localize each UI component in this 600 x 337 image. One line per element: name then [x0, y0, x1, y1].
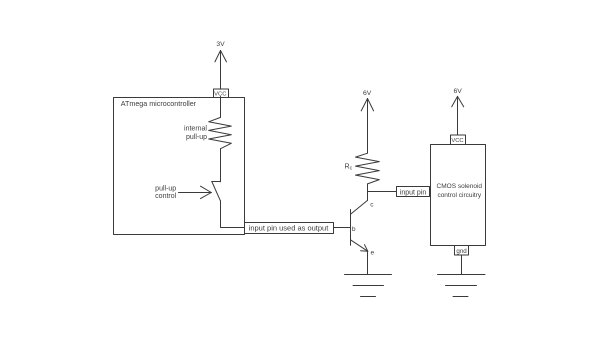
wire VCC pin to internal pull-up resistor — [220, 97, 222, 118]
svg-text:3V: 3V — [216, 41, 225, 48]
resistor internal pull-up — [209, 117, 232, 148]
svg-text:input pin: input pin — [400, 189, 427, 196]
wire node to input pin box — [368, 191, 397, 193]
arrow pull-up control pointer — [179, 186, 212, 198]
wire emitter to ground — [367, 252, 369, 275]
svg-text:control circuitry: control circuitry — [437, 192, 481, 199]
svg-text:control: control — [155, 193, 176, 200]
pin box VCC (ATmega) — [214, 89, 229, 98]
svg-text:VCC: VCC — [451, 138, 463, 144]
node box: input pin used as output — [245, 223, 334, 234]
svg-text:internal: internal — [184, 125, 207, 132]
svg-text:gnd: gnd — [456, 248, 467, 255]
supply arrow 6V (Rc) — [361, 99, 373, 154]
wire output pin to base — [334, 227, 351, 229]
pin box vcc (CMOS) — [451, 135, 466, 145]
svg-text:b: b — [352, 226, 356, 233]
svg-text:pull-up: pull-up — [155, 185, 176, 192]
label: pull-up control — [155, 185, 176, 200]
svg-text:ATmega microcontroller: ATmega microcontroller — [121, 100, 197, 108]
wire collector up to Rc / input pin node — [367, 184, 369, 201]
wire switch to output pin — [221, 201, 245, 228]
svg-text:6V: 6V — [363, 90, 372, 97]
ground (CMOS) — [438, 275, 486, 297]
CMOS solenoid control circuitry box U2 — [431, 145, 486, 246]
svg-text:input pin used as output: input pin used as output — [249, 224, 330, 233]
svg-text:Rc: Rc — [345, 164, 353, 172]
svg-text:e: e — [371, 250, 375, 257]
resistor Rc — [356, 153, 380, 184]
label: CMOS solenoid control circuitry — [437, 183, 483, 199]
svg-text:6V: 6V — [454, 88, 463, 95]
switch SW1 (pull-up control) — [212, 182, 221, 201]
pin box gnd (CMOS) — [455, 246, 469, 256]
svg-text:pull-up: pull-up — [186, 134, 207, 141]
ATmega microcontroller box U1 — [114, 98, 245, 235]
supply arrow 3V — [215, 51, 227, 90]
wire resistor to switch — [220, 149, 222, 182]
svg-text:CMOS solenoid: CMOS solenoid — [437, 183, 483, 190]
label: internal pull-up — [184, 125, 207, 141]
node box: input pin — [397, 187, 430, 197]
transistor Q1 (NPN) — [351, 200, 368, 251]
supply arrow 6V (CMOS) — [452, 96, 464, 134]
wire gnd pin to ground — [461, 255, 463, 275]
ground (emitter) — [345, 275, 392, 297]
